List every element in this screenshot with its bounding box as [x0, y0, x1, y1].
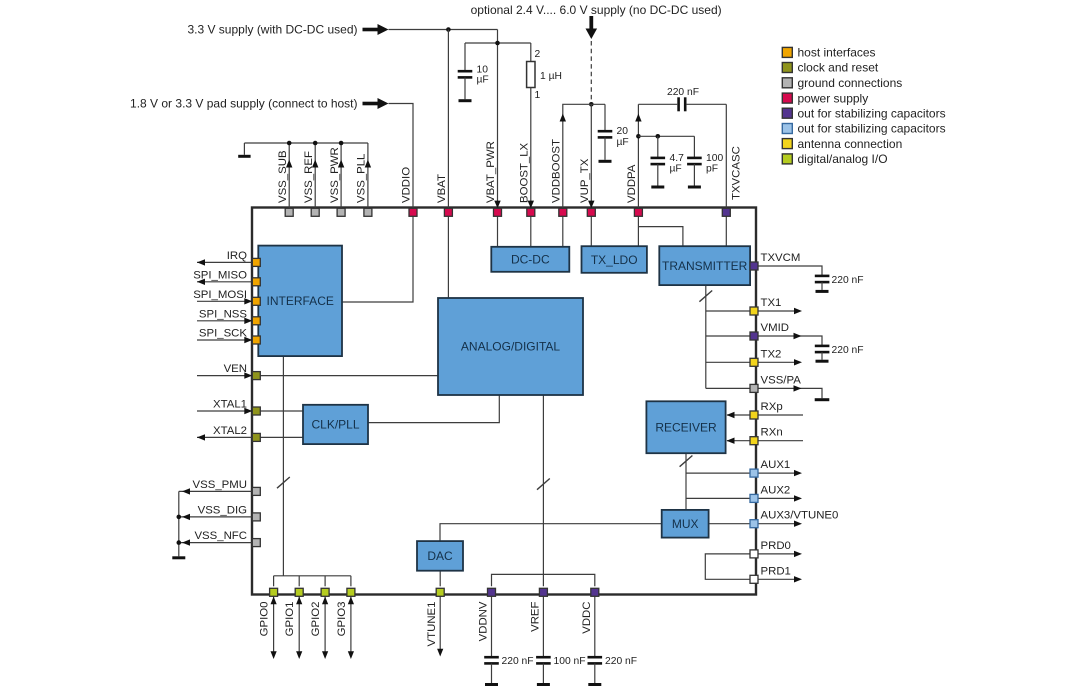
block TX_LDO [582, 246, 647, 273]
wire VSS_REF [314, 143, 316, 208]
ground TXVCM cap [816, 290, 829, 293]
svg-text:VMID: VMID [761, 322, 789, 334]
pin VDDNV [488, 588, 496, 596]
legend host interfaces [782, 46, 875, 60]
ground rail bar [172, 556, 185, 559]
capacitor 4.7uF [651, 136, 666, 185]
svg-text:VSS_REF: VSS_REF [303, 151, 315, 203]
svg-text:INTERFACE: INTERFACE [267, 294, 334, 308]
svg-text:SPI_SCK: SPI_SCK [199, 328, 248, 340]
svg-text:PRD1: PRD1 [761, 565, 791, 577]
svg-text:µF: µF [670, 164, 682, 175]
svg-text:XTAL1: XTAL1 [213, 399, 247, 411]
capacitor 220nF VDDC [588, 594, 603, 683]
wire RXp internal [727, 412, 751, 418]
legend clock and reset [782, 61, 879, 75]
svg-text:TXVCM: TXVCM [761, 252, 801, 264]
wire AUX3 external [758, 521, 802, 527]
wire VUP_TX to TX_LDO [590, 216, 592, 246]
GPIO0 external arrow [271, 597, 277, 660]
wire VUP_TX dashed [590, 41, 592, 104]
arrow into VBAT_PWR pin [494, 201, 500, 209]
block DC-DC [491, 247, 569, 272]
wire VBAT_PWR vertical [497, 30, 499, 207]
ground 100pF [688, 186, 701, 189]
svg-text:VDDIO: VDDIO [401, 167, 413, 203]
svg-text:TRANSMITTER: TRANSMITTER [662, 259, 748, 273]
inductor L1 1uH [527, 43, 535, 207]
legend digital/analog I/O [782, 152, 887, 166]
wire VTUNE1 internal [439, 571, 441, 587]
wire TX1 external [758, 308, 802, 314]
svg-text:CLK/PLL: CLK/PLL [311, 418, 359, 432]
pin VDDIO [409, 208, 417, 216]
svg-text:VDDC: VDDC [581, 602, 593, 634]
pin TXVCM [750, 262, 758, 270]
svg-text:1.8 V or 3.3 V pad supply (con: 1.8 V or 3.3 V pad supply (connect to ho… [130, 97, 357, 111]
svg-text:SPI_MISO: SPI_MISO [193, 269, 247, 281]
node VUP_TX junction [589, 102, 594, 107]
ground VSS bus [238, 143, 250, 156]
wire AUX2 external [758, 495, 802, 501]
wire VEN internal [260, 375, 438, 377]
svg-text:ground connections: ground connections [798, 76, 903, 90]
svg-text:clock and reset: clock and reset [798, 61, 879, 75]
pin IRQ [252, 258, 260, 266]
pin SPI_NSS [252, 317, 260, 325]
ground VSS/PA [815, 398, 830, 401]
pin VDDPA [634, 208, 642, 216]
svg-text:VDDPA: VDDPA [626, 164, 638, 203]
wire cap-inductor link [465, 42, 531, 44]
svg-text:100 nF: 100 nF [554, 656, 586, 667]
svg-text:GPIO1: GPIO1 [284, 602, 296, 637]
arrow up VDDBOOST [560, 114, 566, 122]
svg-text:VSS_PLL: VSS_PLL [356, 154, 368, 203]
node link junction [495, 41, 500, 46]
wire VDDPA vertical [637, 104, 639, 208]
pin SPI_MISO [252, 278, 260, 286]
svg-text:TX2: TX2 [761, 348, 782, 360]
wire VSS_PMU [179, 488, 253, 494]
ground VDDC cap [588, 683, 601, 686]
block CLK/PLL [303, 405, 368, 444]
svg-text:220 nF: 220 nF [667, 87, 699, 98]
wire to AUX1 [686, 472, 750, 474]
pin GPIO2 [321, 588, 329, 596]
svg-text:optional 2.4 V.... 6.0 V suppl: optional 2.4 V.... 6.0 V supply (no DC-D… [471, 3, 722, 17]
pin VSS_SUB [285, 208, 293, 216]
wire PRD0 external [758, 551, 802, 557]
svg-text:IRQ: IRQ [227, 250, 247, 262]
svg-text:TXVCASC: TXVCASC [731, 146, 743, 200]
wire XTAL1 external [197, 408, 252, 414]
pin VTUNE1 [436, 588, 444, 596]
wire RXp external [758, 414, 803, 416]
node VBAT junction [446, 27, 451, 32]
wire VDDBOOST net [563, 104, 605, 208]
pin VMID [750, 332, 758, 340]
wire VBAT_PWR to DC-DC [497, 216, 499, 247]
bus slash GPIO [277, 477, 290, 488]
svg-text:VUP_TX: VUP_TX [579, 158, 591, 203]
pin TX2 [750, 358, 758, 366]
svg-text:VSS/PA: VSS/PA [761, 374, 802, 386]
pin XTAL1 [252, 407, 260, 415]
block DAC [417, 541, 463, 571]
wire bottom supply bus [492, 574, 595, 586]
pin VSS_REF [311, 208, 319, 216]
legend out for stabilizing capacitors blue [782, 122, 945, 136]
pin VSS_PWR [337, 208, 345, 216]
svg-text:4.7: 4.7 [670, 153, 685, 164]
wire VDDPA to TX_LDO [637, 216, 639, 246]
bus slash RECEIVER [680, 456, 693, 467]
pin VEN [252, 372, 260, 380]
svg-text:1: 1 [535, 90, 541, 101]
capacitor 220nF TXVCM [815, 276, 830, 290]
pin VDDBOOST [559, 208, 567, 216]
svg-text:VEN: VEN [224, 363, 247, 375]
arrows up VSS pins [286, 160, 371, 168]
arrow into BOOST_LX pin [528, 201, 534, 209]
wire INTERFACE to GPIO bus [282, 356, 284, 576]
svg-text:host interfaces: host interfaces [798, 46, 876, 60]
pin VBAT_PWR [494, 208, 502, 216]
svg-text:PRD0: PRD0 [761, 540, 791, 552]
wire RXn external [758, 440, 803, 442]
svg-text:AUX2: AUX2 [761, 484, 791, 496]
svg-text:pF: pF [706, 164, 718, 175]
node VSS junctions [287, 141, 344, 146]
wire SPI_NSS [197, 318, 252, 324]
pin TX1 [750, 307, 758, 315]
svg-text:VSS_SUB: VSS_SUB [277, 150, 289, 203]
wire AUX1 external [758, 470, 802, 476]
ground 10uF [459, 99, 472, 102]
pin AUX1 [750, 469, 758, 477]
wire VDDBOOST to DC-DC [562, 216, 564, 247]
pin BOOST_LX [527, 208, 535, 216]
pin VUP_TX [587, 208, 595, 216]
wire TXVCASC to TRANSMITTER [725, 216, 727, 246]
svg-text:2: 2 [535, 49, 541, 60]
svg-text:power supply: power supply [798, 91, 869, 105]
pin VREF [539, 588, 547, 596]
wire GPIO drops [274, 576, 351, 587]
svg-text:VBAT: VBAT [436, 174, 448, 203]
pin GPIO3 [347, 588, 355, 596]
wire VDDIO internal [342, 216, 413, 302]
GPIO2 external arrow [322, 597, 328, 660]
pin VSS_NFC [252, 539, 260, 547]
supply arrow 3.3V [363, 24, 389, 35]
wire RECEIVER output bus [685, 453, 687, 510]
pin PRD0 [750, 550, 758, 558]
wire VSS_PLL [367, 143, 369, 208]
block INTERFACE [258, 246, 342, 357]
svg-text:VTUNE1: VTUNE1 [426, 602, 438, 647]
wire TXVCASC vertical [725, 104, 727, 208]
wire to AUX2 [686, 497, 750, 499]
capacitor 100nF VREF [536, 594, 551, 683]
wire SPI_MISO [197, 279, 252, 285]
wire to VSS/PA [706, 387, 750, 389]
pin SPI_SCK [252, 336, 260, 344]
svg-text:AUX3/VTUNE0: AUX3/VTUNE0 [761, 510, 839, 522]
wire VSS ground rail left [178, 491, 180, 556]
supply arrow 1.8V [363, 98, 389, 109]
supply arrow optional [586, 16, 598, 39]
svg-text:DAC: DAC [427, 549, 453, 563]
capacitor 220nF VDDNV [484, 594, 499, 683]
svg-text:AUX1: AUX1 [761, 459, 791, 471]
pin VSS/PA [750, 384, 758, 392]
wire VSS bus [244, 142, 368, 144]
GPIO1 external arrow [296, 597, 302, 660]
pin GPIO1 [295, 588, 303, 596]
wire RXn internal [727, 438, 751, 444]
wire TX2 external [758, 359, 802, 365]
ground VREF cap [537, 683, 550, 686]
svg-text:out for stabilizing capacitors: out for stabilizing capacitors [798, 122, 946, 136]
svg-text:RXp: RXp [761, 401, 783, 413]
pin TXVCASC [722, 208, 730, 216]
wire to TX2 [706, 361, 750, 363]
wire VMID external [758, 333, 822, 346]
wire TXVCM external [758, 266, 822, 276]
pin VSS_PLL [364, 208, 372, 216]
wire VBAT vertical [447, 30, 449, 209]
pin VSS_DIG [252, 513, 260, 521]
wire TRANSMITTER output bus [705, 285, 707, 388]
chip outline [252, 208, 756, 595]
pin RXn [750, 437, 758, 445]
svg-text:VREF: VREF [529, 601, 541, 631]
svg-text:XTAL2: XTAL2 [213, 425, 247, 437]
pin RXp [750, 411, 758, 419]
block TRANSMITTER [659, 246, 750, 285]
svg-text:VSS_NFC: VSS_NFC [194, 530, 247, 542]
legend power supply [782, 91, 868, 105]
svg-text:GPIO3: GPIO3 [336, 602, 348, 637]
node 4.7uF junction [656, 134, 661, 139]
svg-text:3.3 V supply (with DC-DC used): 3.3 V supply (with DC-DC used) [187, 23, 357, 37]
wire SPI_MOSI [197, 298, 252, 304]
svg-text:VDDNV: VDDNV [478, 601, 490, 641]
svg-text:GPIO0: GPIO0 [259, 602, 271, 637]
legend out for stabilizing capacitors purple [782, 106, 945, 120]
svg-text:VDDBOOST: VDDBOOST [551, 139, 563, 203]
pin VBAT [444, 208, 452, 216]
svg-text:220 nF: 220 nF [605, 656, 637, 667]
svg-text:GPIO2: GPIO2 [310, 602, 322, 637]
wire IRQ [197, 259, 252, 265]
wire VSS_DIG [179, 514, 253, 520]
block RECEIVER [646, 401, 725, 453]
wire VDDIO supply [389, 104, 414, 209]
capacitor 20uF [598, 104, 613, 160]
svg-text:20: 20 [617, 126, 629, 137]
wire 3.3V rail [389, 29, 498, 31]
wire VDDPA to TRANSMITTER jog [638, 227, 683, 247]
ground 4.7uF [651, 186, 664, 189]
arrow into VUP_TX pin [588, 201, 594, 209]
svg-text:220 nF: 220 nF [502, 656, 534, 667]
svg-text:TX_LDO: TX_LDO [591, 253, 638, 267]
wire VSS/PA external [758, 385, 822, 398]
wire VEN external [197, 372, 252, 378]
bus slash VREF [537, 479, 550, 490]
block MUX [662, 510, 709, 538]
wire VUP_TX solid [590, 104, 592, 206]
wire VDDPA cap branch [638, 135, 694, 137]
GPIO3 external arrow [348, 597, 354, 660]
node rail junctions [177, 515, 182, 545]
ground VDDNV cap [485, 683, 498, 686]
pin VDDC [591, 588, 599, 596]
svg-text:BOOST_LX: BOOST_LX [519, 142, 531, 203]
svg-text:DC-DC: DC-DC [511, 252, 550, 266]
pin PRD1 [750, 575, 758, 583]
wire PRD loop [705, 554, 750, 579]
wire ANALOG to CLK/PLL [368, 395, 499, 423]
legend antenna connection [782, 137, 902, 151]
wire MUX to AUX3 [709, 523, 750, 525]
svg-text:220 nF: 220 nF [832, 345, 864, 356]
svg-text:VSS_PMU: VSS_PMU [193, 479, 247, 491]
arrow up VDDPA [635, 114, 641, 122]
svg-text:220 nF: 220 nF [832, 275, 864, 286]
pin AUX2 [750, 494, 758, 502]
wire to TX1 [706, 310, 750, 312]
svg-text:SPI_NSS: SPI_NSS [199, 308, 248, 320]
wire XTAL1 internal [260, 410, 303, 412]
wire XTAL2 external [197, 434, 252, 440]
svg-text:µF: µF [617, 137, 629, 148]
wire SPI_SCK [197, 337, 252, 343]
legend ground connections [782, 76, 902, 90]
svg-text:antenna connection: antenna connection [798, 137, 903, 151]
svg-text:VSS_DIG: VSS_DIG [198, 504, 248, 516]
svg-text:MUX: MUX [672, 517, 699, 531]
bus slash TRANSMITTER [699, 291, 712, 302]
capacitor 10uF [458, 43, 473, 99]
pin SPI_MOSI [252, 297, 260, 305]
node VDDPA branch [636, 134, 641, 139]
wire DAC to MUX [440, 524, 662, 541]
svg-text:RECEIVER: RECEIVER [655, 420, 717, 434]
svg-text:100: 100 [706, 153, 723, 164]
svg-text:out for stabilizing capacitors: out for stabilizing capacitors [798, 106, 946, 120]
capacitor 220nF coupling [638, 97, 726, 111]
block ANALOG/DIGITAL [438, 298, 583, 395]
capacitor 220nF VMID [815, 346, 830, 360]
capacitor 100pF [687, 136, 702, 185]
wire VSS_PWR [340, 143, 342, 208]
wire VBAT internal [447, 216, 449, 298]
svg-text:µF: µF [477, 75, 489, 86]
svg-text:ANALOG/DIGITAL: ANALOG/DIGITAL [461, 340, 560, 354]
wire VSS_SUB [288, 143, 290, 208]
svg-text:TX1: TX1 [761, 297, 782, 309]
wire VREF internal [542, 395, 544, 586]
svg-text:1 µH: 1 µH [540, 71, 562, 82]
pin GPIO0 [270, 588, 278, 596]
wire GPIO bus [274, 575, 351, 577]
ground 20uF [599, 160, 612, 163]
svg-text:VBAT_PWR: VBAT_PWR [485, 141, 497, 203]
wire BOOST_LX to DC-DC [530, 216, 532, 247]
svg-text:VSS_PWR: VSS_PWR [329, 147, 341, 203]
wire to VMID [706, 335, 750, 337]
svg-text:digital/analog I/O: digital/analog I/O [798, 152, 888, 166]
VTUNE1 external arrow [437, 594, 443, 656]
ground VMID cap [816, 360, 829, 363]
svg-text:SPI_MOSI: SPI_MOSI [193, 289, 247, 301]
svg-text:RXn: RXn [761, 427, 783, 439]
wire VSS_NFC [179, 539, 253, 545]
pin XTAL2 [252, 433, 260, 441]
wire XTAL2 internal [260, 436, 303, 438]
pin VSS_PMU [252, 487, 260, 495]
pin AUX3/VTUNE0 [750, 520, 758, 528]
wire PRD1 external [758, 576, 802, 582]
